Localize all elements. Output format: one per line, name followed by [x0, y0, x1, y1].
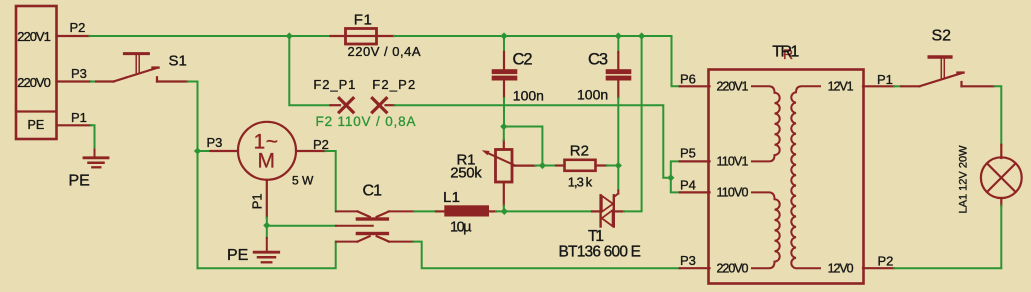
potentiometer R1 [482, 140, 536, 206]
svg-text:P2: P2 [878, 253, 894, 268]
TR1 primary winding lower [752, 192, 780, 268]
svg-text:220V0: 220V0 [17, 75, 51, 90]
svg-text:PE: PE [69, 173, 90, 190]
wire C1 lower right to bottom rail [413, 242, 679, 269]
switch S1 blade [114, 68, 159, 82]
lamp LA1 bottom lead [1000, 198, 1002, 206]
wire C1 to L1 [414, 210, 436, 212]
svg-text:220V1: 220V1 [17, 29, 51, 44]
svg-text:LA1 12V 20W: LA1 12V 20W [958, 145, 970, 214]
svg-text:10µ: 10µ [450, 220, 472, 236]
svg-text:P2: P2 [70, 20, 86, 35]
svg-text:250k: 250k [450, 165, 482, 182]
pin P2 stub [57, 35, 90, 37]
capacitor C2 [492, 36, 518, 127]
svg-text:12V1: 12V1 [828, 79, 854, 93]
junction dot T1 rail [638, 32, 645, 39]
wire top rail 220V1 [90, 35, 331, 37]
switch S1 left pin [91, 81, 114, 83]
svg-text:220V / 0,4A: 220V / 0,4A [348, 44, 421, 59]
ground PE motor lead [266, 225, 268, 250]
TR1 primary winding upper [752, 86, 780, 161]
ground PE motor bars [254, 252, 279, 262]
pin P4 stub [680, 191, 710, 193]
svg-text:F2_P2: F2_P2 [372, 77, 415, 92]
svg-text:1,3 k: 1,3 k [568, 174, 593, 189]
junction dot C2/R1 [500, 123, 507, 130]
wire P1 to ground [91, 125, 95, 149]
pin P3 stub TR1 [680, 267, 710, 269]
svg-text:F1: F1 [354, 12, 372, 29]
wire R1 top to C2 junction [503, 127, 505, 141]
label TR1 [772, 44, 799, 63]
svg-text:220V0: 220V0 [717, 261, 749, 275]
wire F2 to P5/P4 junction [394, 105, 670, 178]
pin P1 stub [57, 124, 92, 126]
wire S2 to lamp [994, 86, 1001, 145]
switch S1 actuator [124, 54, 148, 73]
fuse F1 right stub [377, 35, 395, 37]
TR1 secondary winding [791, 86, 820, 268]
svg-text:110V1: 110V1 [717, 155, 749, 169]
svg-text:P3: P3 [680, 253, 696, 268]
svg-text:L1: L1 [443, 189, 460, 206]
capacitor C1 upper section [336, 211, 414, 220]
svg-text:PE: PE [28, 118, 45, 132]
junction dot rail/F2 [286, 32, 293, 39]
lamp LA1 circle [981, 157, 1022, 198]
junction dot motor P1 / PE [263, 222, 270, 229]
junction dot C3 rail [615, 32, 622, 39]
resistor R2 [556, 160, 607, 171]
motor right pin [296, 151, 336, 211]
motor left pin [198, 150, 239, 152]
svg-text:5 W: 5 W [292, 174, 314, 188]
svg-text:PE: PE [227, 247, 248, 264]
svg-text:S1: S1 [169, 53, 187, 70]
motor M1 circle [238, 122, 296, 180]
switch S2 actuator [929, 57, 951, 78]
fuse contact F2_P1 X mark [339, 98, 353, 112]
svg-text:P2: P2 [313, 137, 329, 152]
svg-text:P1: P1 [71, 110, 87, 125]
wire R2 right to gate net [607, 165, 618, 167]
svg-text:110V0: 110V0 [717, 186, 749, 200]
wire gate net down [617, 166, 619, 191]
motor bottom pin [266, 180, 268, 226]
pin P5 stub [680, 160, 710, 162]
svg-text:P5: P5 [680, 145, 696, 160]
wire junction to wiper net [504, 127, 543, 166]
svg-text:C2: C2 [513, 51, 533, 69]
wire bottom rail left [198, 242, 336, 269]
svg-text:R2: R2 [570, 142, 589, 159]
wire motor P1 to C1 middle [267, 225, 336, 227]
wire F2 drop from rail [289, 36, 330, 105]
fuse contact F2_P1 stub [331, 104, 341, 106]
junction dot C2 rail [500, 32, 507, 39]
transformer TR1 box [709, 70, 864, 284]
svg-text:P3: P3 [71, 66, 87, 81]
svg-text:F2 110V / 0,8A: F2 110V / 0,8A [316, 114, 416, 129]
wire S1 down left vertical [188, 82, 198, 269]
switch S2 left pin [894, 85, 920, 87]
svg-text:M: M [258, 150, 276, 173]
svg-text:P6: P6 [680, 72, 696, 87]
junction dot motor P3 [194, 147, 201, 154]
svg-text:P1: P1 [250, 193, 265, 209]
fuse contact F2_P2 X mark [372, 98, 386, 112]
svg-text:C1: C1 [363, 183, 383, 200]
wire T1 right to top rail [624, 36, 642, 211]
svg-text:T1: T1 [588, 228, 604, 245]
pin P2 stub TR1 right [863, 267, 894, 269]
wire to P5 [671, 161, 680, 177]
fuse F1 left stub [331, 35, 346, 37]
svg-text:S2: S2 [932, 28, 952, 45]
svg-text:C3: C3 [588, 51, 608, 69]
connector X1 body [16, 6, 57, 139]
svg-text:P3: P3 [207, 135, 223, 150]
junction dot gate net [615, 162, 622, 169]
svg-text:100n: 100n [513, 88, 544, 104]
svg-text:220V1: 220V1 [717, 79, 749, 93]
junction dot wiper [539, 162, 546, 169]
lamp LA1 top lead [1000, 145, 1002, 158]
fuse contact F2_P2 stub [386, 104, 395, 106]
pin P3 stub [57, 80, 92, 82]
svg-text:F2_P1: F2_P1 [313, 77, 355, 92]
fuse F1 body [346, 29, 377, 45]
svg-text:P4: P4 [680, 178, 696, 193]
svg-text:TR1: TR1 [772, 44, 799, 61]
wire L1 to T1 [496, 210, 592, 212]
capacitor C1 middle lead [336, 225, 373, 227]
pin P6 stub [680, 85, 710, 87]
svg-text:P1: P1 [877, 72, 893, 87]
switch S2 right contact [962, 82, 995, 86]
triac T1 [592, 191, 624, 227]
wire top rail to P6 corner [394, 36, 680, 86]
svg-text:12V0: 12V0 [828, 261, 854, 275]
pin P1 stub TR1 right [863, 85, 894, 87]
junction dot R1 bottom [501, 208, 508, 215]
switch S2 blade [920, 73, 964, 87]
switch S1 right contact [157, 77, 188, 81]
ground PE left lead [94, 150, 96, 158]
junction dot P5/P4 [667, 174, 674, 181]
capacitor C1 lower section [336, 232, 413, 242]
svg-text:BT136 600 E: BT136 600 E [559, 244, 642, 261]
wire lamp to P2 [894, 206, 1001, 269]
wire to P4 [671, 178, 680, 193]
ground PE left bars [84, 158, 108, 168]
wire R1 bottom [503, 206, 505, 212]
inductor L1 [436, 205, 496, 216]
wire wiper to R2 [535, 165, 556, 167]
svg-text:100n: 100n [577, 87, 608, 103]
capacitor C3 [606, 36, 632, 166]
